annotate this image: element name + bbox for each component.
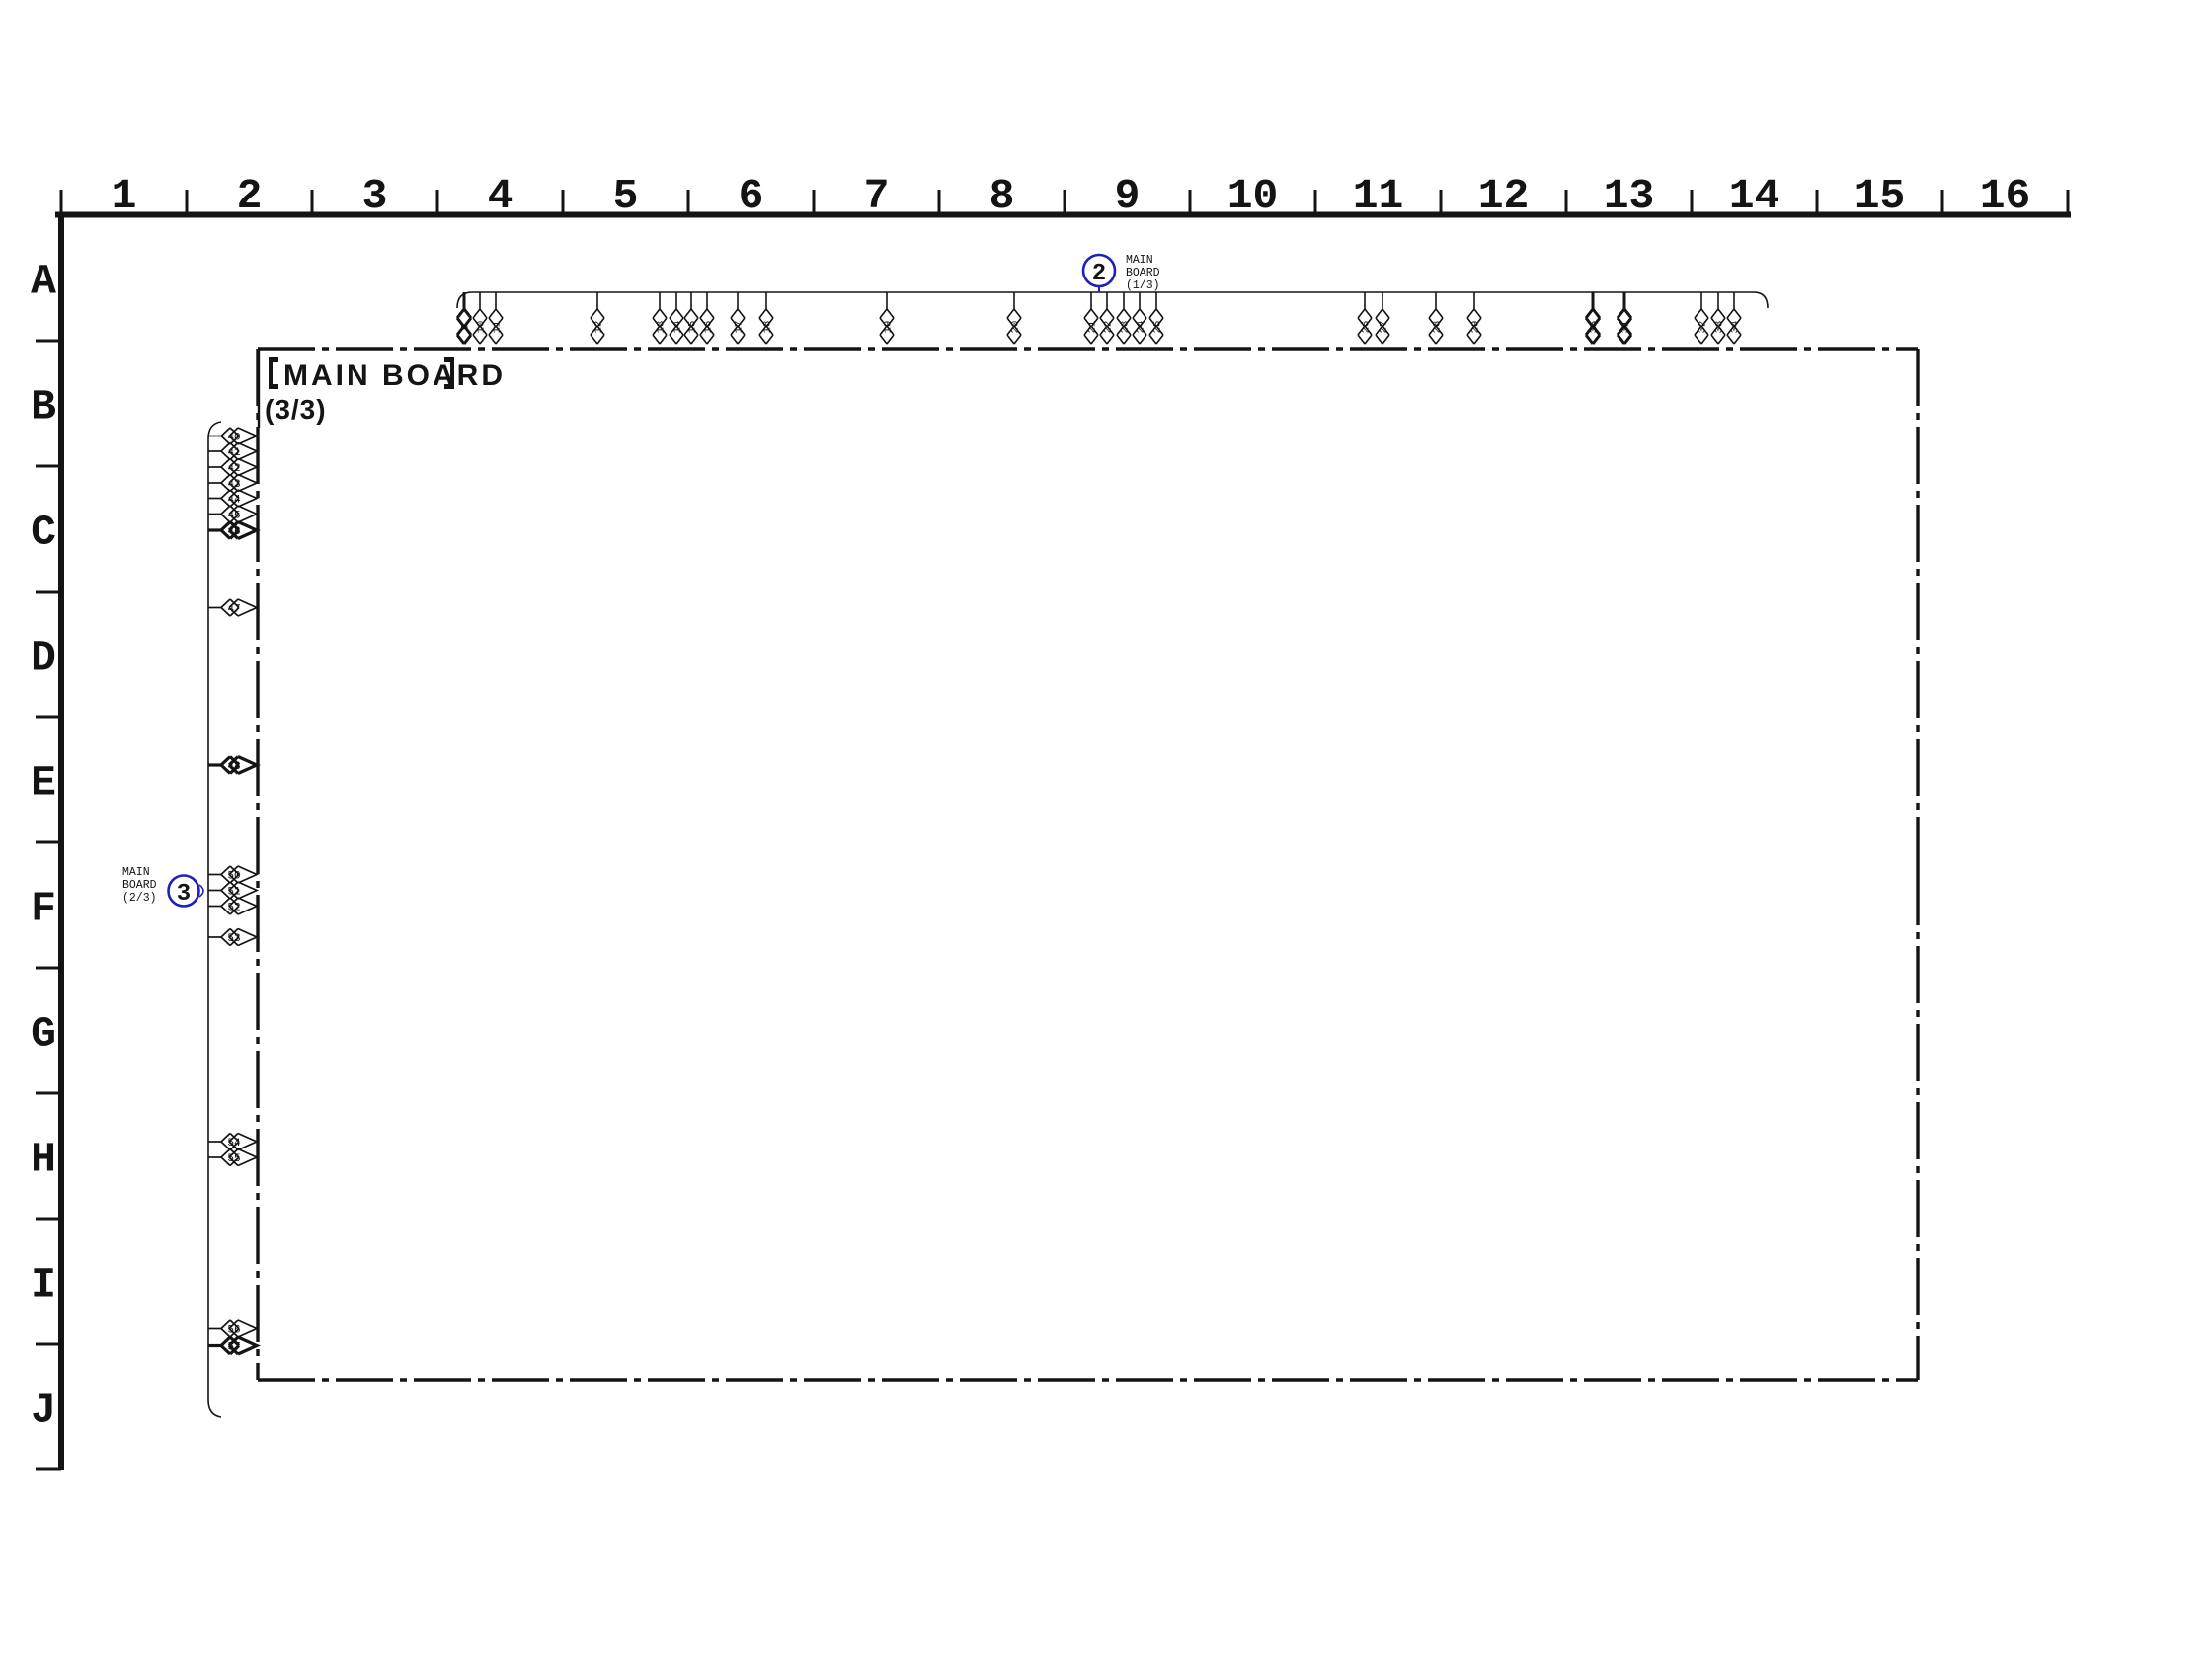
svg-text:C: C [31,509,56,557]
svg-text:14: 14 [672,321,684,334]
svg-text:33: 33 [1714,321,1726,334]
border frame: column ticks [61,190,2068,212]
svg-text:24: 24 [1136,321,1147,334]
svg-text:21: 21 [1087,321,1099,334]
main board title block [258,349,260,428]
connector pin 42 (to main board 2/3) [208,459,257,476]
svg-text:42: 42 [227,463,240,475]
svg-text:2: 2 [237,172,263,220]
connector pin 57 (to main board 2/3) [208,1337,257,1354]
svg-text:13: 13 [1604,172,1655,220]
svg-text:25: 25 [1152,321,1164,334]
node: page connector 2 (MAIN BOARD 1/3) [1083,255,1115,286]
connector pin 23 (to main board 1/3) [1117,292,1131,344]
connector pin 15 (to main board 1/3) [684,292,698,344]
connector pin 9 (to main board 1/3) [457,292,471,344]
connector pin 11 (to main board 1/3) [489,292,503,344]
svg-text:16: 16 [1980,172,2031,220]
svg-text:15: 15 [1855,172,1906,220]
svg-text:I: I [31,1261,56,1309]
svg-text:12: 12 [593,321,605,334]
connector pin 14 (to main board 1/3) [670,292,683,344]
svg-text:(2/3): (2/3) [122,892,157,905]
svg-text:3: 3 [362,172,388,220]
connector pin 32 (to main board 1/3) [1695,292,1708,344]
svg-text:H: H [31,1136,56,1184]
connector pin 51 (to main board 2/3) [208,882,257,899]
connector pin 47 (to main board 2/3) [208,599,257,616]
connector pin 17 (to main board 1/3) [731,292,745,344]
svg-text:BOARD: BOARD [122,879,157,892]
svg-text:F: F [31,885,56,933]
node: page connector 3 (MAIN BOARD 2/3) [169,876,199,907]
svg-text:18: 18 [762,321,774,334]
svg-text:43: 43 [227,479,240,491]
svg-text:34: 34 [1730,321,1742,334]
connector pin 13 (to main board 1/3) [653,292,667,344]
svg-text:46: 46 [227,526,240,538]
connector pin 22 (to main board 1/3) [1100,292,1114,344]
svg-text:4: 4 [488,172,513,220]
svg-text:9: 9 [460,324,472,330]
connector pin 50 (to main board 2/3) [208,866,257,883]
connector pin 56 (to main board 2/3) [208,1320,257,1337]
connector pin 29 (to main board 1/3) [1467,292,1481,344]
top connector bracket to main board 1/3 [457,292,1768,308]
connector pin 26 (to main board 1/3) [1358,292,1372,344]
connector pin 43 (to main board 2/3) [208,475,257,492]
svg-text:12: 12 [1478,172,1530,220]
svg-text:9: 9 [1115,172,1141,220]
svg-text:51: 51 [227,887,241,899]
svg-text:29: 29 [1470,321,1482,334]
svg-text:14: 14 [1729,172,1780,220]
svg-text:31: 31 [1620,321,1632,334]
connector pin 48 (to main board 2/3) [208,757,257,774]
connector pin 18 (to main board 1/3) [759,292,773,344]
connector pin 28 (to main board 1/3) [1429,292,1443,344]
connector pin 55 (to main board 2/3) [208,1149,257,1166]
svg-text:10: 10 [1227,172,1279,220]
svg-text:19: 19 [883,321,895,334]
svg-text:G: G [31,1010,56,1059]
svg-text:26: 26 [1361,321,1373,334]
svg-text:J: J [31,1386,56,1435]
svg-text:A: A [31,258,56,306]
svg-text:17: 17 [734,321,746,334]
svg-text:28: 28 [1432,321,1444,334]
connector pin 45 (to main board 2/3) [208,506,257,522]
connector pin 40 (to main board 2/3) [208,428,257,444]
svg-text:16: 16 [703,321,715,334]
svg-text:50: 50 [227,871,240,883]
svg-text:54: 54 [227,1138,241,1149]
connector pin 35 (to main board 1/3) [1586,292,1600,344]
svg-text:MAIN: MAIN [122,866,150,879]
svg-text:6: 6 [739,172,764,220]
svg-text:32: 32 [1698,321,1709,334]
svg-text:57: 57 [227,1342,240,1354]
svg-text:22: 22 [1103,321,1115,334]
connector pin 31 (to main board 1/3) [1618,292,1631,344]
connector pin 52 (to main board 2/3) [208,898,257,914]
connector pin 21 (to main board 1/3) [1084,292,1098,344]
connector pin 25 (to main board 1/3) [1149,292,1163,344]
svg-text:11: 11 [1353,172,1404,220]
svg-text:48: 48 [227,761,240,773]
border frame: row letters [31,258,56,1435]
border frame: row ticks [36,341,61,1469]
svg-text:45: 45 [227,511,240,522]
connector pin 34 (to main board 1/3) [1727,292,1741,344]
svg-text:20: 20 [1010,321,1022,334]
svg-text:23: 23 [1120,321,1132,334]
svg-text:52: 52 [227,903,240,914]
svg-text:3: 3 [177,881,191,908]
svg-text:10: 10 [476,321,488,334]
connector pin 27 (to main board 1/3) [1376,292,1389,344]
main board outline (dash-dot border) [258,349,1918,1380]
left connector bracket (to main board 2/3) [208,422,221,1417]
connector pin 53 (to main board 2/3) [208,929,257,946]
svg-text:41: 41 [227,447,241,459]
svg-text:40: 40 [227,433,240,444]
svg-text:MAIN: MAIN [1126,254,1153,267]
svg-text:BOARD: BOARD [1126,267,1160,279]
svg-text:44: 44 [227,495,241,507]
connector pin 20 (to main board 1/3) [1007,292,1021,344]
connector pin 19 (to main board 1/3) [880,292,894,344]
svg-text:53: 53 [227,933,240,945]
connector pin 46 (to main board 2/3) [208,522,257,539]
connector pin 54 (to main board 2/3) [208,1134,257,1150]
connector pin 16 (to main board 1/3) [700,292,714,344]
svg-text:E: E [31,759,56,808]
svg-text:B: B [31,383,56,432]
svg-text:8: 8 [989,172,1015,220]
svg-text:7: 7 [864,172,890,220]
connector pin 24 (to main board 1/3) [1133,292,1146,344]
svg-text:27: 27 [1379,321,1390,334]
connector pin 33 (to main board 1/3) [1711,292,1725,344]
svg-text:11: 11 [492,321,504,334]
svg-text:47: 47 [227,604,240,616]
connector pin 12 (to main board 1/3) [591,292,604,344]
connector pin 10 (to main board 1/3) [473,292,487,344]
svg-text:2: 2 [1092,261,1106,287]
svg-text:1: 1 [112,172,137,220]
svg-text:MAIN BOARD: MAIN BOARD [283,359,506,392]
svg-text:D: D [31,634,56,682]
svg-text:13: 13 [656,321,668,334]
border frame: left ruler line [58,212,64,1471]
border frame: column numbers [112,172,2031,220]
svg-text:56: 56 [227,1325,240,1337]
svg-text:55: 55 [227,1153,240,1165]
border frame: top ruler line [55,212,2071,218]
connector pin 44 (to main board 2/3) [208,490,257,507]
svg-text:(1/3): (1/3) [1126,279,1160,292]
svg-text:(3/3): (3/3) [265,394,327,425]
svg-text:15: 15 [687,321,699,334]
svg-text:5: 5 [613,172,639,220]
svg-text:35: 35 [1589,321,1601,334]
connector pin 41 (to main board 2/3) [208,443,257,460]
